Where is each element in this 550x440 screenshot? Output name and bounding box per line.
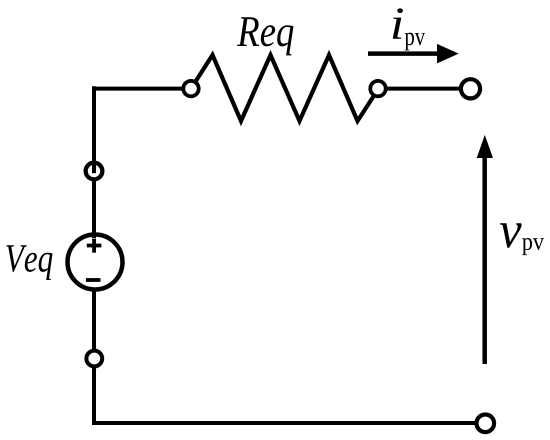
wire stub at voltage source top	[92, 230, 96, 238]
wire stub entering upper-left node	[92, 160, 96, 173]
label Veq	[6, 245, 52, 280]
wire left vertical from top corner down to upper node	[92, 86, 96, 171]
node at resistor left terminal	[183, 81, 198, 96]
voltage arrow v_pv head	[477, 135, 493, 158]
terminal top-right open circle	[461, 79, 480, 98]
label i of i_pv	[393, 8, 403, 39]
voltage arrow v_pv shaft	[482, 152, 487, 364]
resistor R_eq zigzag	[191, 55, 379, 121]
node upper-left on source branch	[86, 163, 103, 180]
label pv subscript of v_pv	[522, 238, 544, 255]
wire bottom: lower node down to corner then right to bottom terminal	[94, 359, 485, 424]
wire top-left horizontal from corner to resistor left node	[92, 87, 191, 91]
wire from voltage source bottom to lower node	[92, 285, 96, 359]
plus sign inside source	[87, 244, 102, 248]
terminal bottom-right open circle	[477, 415, 495, 433]
voltage source V_eq circle	[68, 235, 123, 290]
label pv subscript of i_pv	[405, 33, 425, 51]
current arrow i_pv shaft	[368, 51, 441, 56]
label v of v_pv	[500, 223, 522, 248]
node lower-left on source branch	[86, 351, 102, 367]
wire from upper node to voltage source top	[92, 171, 96, 240]
current arrow i_pv head	[437, 44, 459, 64]
minus sign inside source	[86, 278, 101, 282]
wire from resistor right node to top-right terminal	[379, 87, 471, 91]
node at resistor right terminal	[370, 81, 385, 96]
label Req	[237, 17, 294, 55]
